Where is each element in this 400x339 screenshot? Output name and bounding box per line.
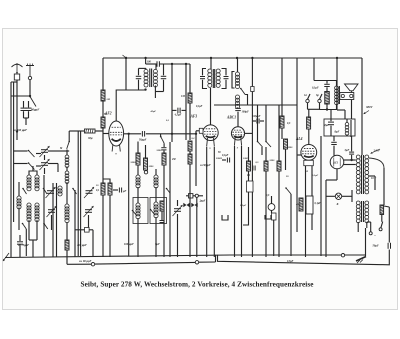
coil L2 [35,175,39,191]
svg-text:M: M [59,147,63,150]
speaker cone [345,84,359,93]
wire row2 right [48,163,58,165]
terminal TA [144,171,147,174]
wire hook 222 [222,215,228,220]
core L18 [338,86,340,104]
svg-text:380V: 380V [365,105,374,109]
coil L17 osc2 [235,95,239,109]
trimmer C6b [86,191,93,194]
coil L7b [66,150,68,156]
switch S8b [43,223,48,229]
wire tr tap curve [369,158,384,168]
speaker magnet [340,93,354,100]
wire r16 [278,105,280,161]
resistor R4 [101,117,105,128]
pilot lamp K [335,193,341,199]
capacitor C19 [253,166,255,171]
wire anode AF2 [116,90,145,121]
svg-text:~: ~ [374,234,376,238]
wire r12r13 [189,151,191,154]
switch S7 [72,188,76,194]
svg-text:n: n [209,147,211,150]
earth plug E [26,64,34,77]
svg-text:n: n [237,147,239,150]
wire elect top [336,58,338,110]
resistor R3 [101,90,105,101]
svg-text:240V: 240V [373,149,381,153]
svg-text:80μμF: 80μμF [31,108,39,112]
tube V1 legs [112,145,120,156]
wire anode feed drop [125,58,127,90]
switch S3 row1 right [62,150,69,152]
terminal G1 [306,99,309,102]
coil L9 T1 secondary [153,69,157,87]
wire t1 top right [159,63,190,65]
svg-text:0,1: 0,1 [166,119,169,122]
switch S6 [43,188,47,194]
wire tr right vert [383,168,385,205]
wire r7 [137,142,139,154]
wire col 170 [169,142,171,257]
label 240V [371,149,381,154]
resistor R22 [380,205,384,215]
svg-text:5000: 5000 [270,159,276,162]
svg-text:4000: 4000 [295,203,302,206]
padder C15a [183,203,189,207]
wire r4 down [102,128,104,183]
wire mains bottom [218,250,390,265]
switch S4 row2 [14,163,28,165]
resistor R5 [101,183,105,195]
svg-text:4,5μF: 4,5μF [174,114,182,117]
node bus dots [236,57,238,59]
svg-text:μF: μF [122,190,126,193]
bracket L16 [232,72,235,89]
svg-text:0,1: 0,1 [96,189,100,192]
wire L14 bottom to AF3 [210,88,212,125]
padder C15b [191,203,197,207]
coil L16 osc [235,72,239,89]
switch S10 [132,210,137,216]
wire r14 top [248,147,250,161]
svg-text:400 μμF: 400 μμF [76,244,87,247]
wire lamp leads [326,195,335,197]
terminal T2b [195,261,198,264]
coil L13 [154,202,158,218]
transformer T2 core [212,69,214,88]
wire L11 down [137,218,139,257]
switch S2 row1 [14,150,28,152]
resistor R10 [160,201,164,211]
wire avc drop b [80,131,82,256]
coil L6 [65,204,69,223]
wire second bottom b [199,261,216,263]
wire osc tap [245,95,247,106]
wire drop 320 [320,136,322,256]
capacitor C18 [235,108,241,110]
coil L1 [27,175,31,191]
switch S8 [22,223,27,229]
trimmer C14 [174,209,181,212]
svg-text:w: w [115,153,117,156]
svg-text:50000: 50000 [131,161,138,164]
wire terms [307,103,309,110]
trimmer C6 [85,210,92,213]
wire col 257 [257,105,259,141]
svg-text:AF2: AF2 [104,112,112,116]
capacitor C12 coupling [124,133,142,135]
resistor R15 [264,161,268,171]
wire r2 to line2 [66,250,68,264]
pot box P1b [272,213,277,220]
capacitor C13 [163,143,165,147]
svg-text:50μF: 50μF [373,245,379,248]
wire col 56 [56,183,58,257]
capacitor C17a left bracket [203,69,207,76]
transformer TR core [361,155,363,194]
arrester box D [14,74,19,80]
switch blade G2 [320,94,323,99]
wire col 172 [171,64,173,112]
core lower [361,201,363,222]
wire af3 side [196,130,199,132]
wire L8 top [145,68,147,69]
box osc trimmer [251,87,254,92]
wire osc drop [237,58,239,72]
box pot2 [247,181,254,192]
resistor R7 [136,153,140,165]
svg-text:100μμF: 100μμF [252,115,261,118]
tube V5 AZ1 [330,155,344,169]
resistor R2 [65,240,69,250]
tube V1 AF2 [109,121,124,146]
wire tr tap mid [369,175,375,177]
bus chassis bottom [5,255,230,258]
terminal G2 [318,99,321,102]
wire L1L2 top [29,171,37,175]
svg-text:50: 50 [96,184,99,187]
node rail dot [16,130,18,132]
wire al4 pins [305,166,307,257]
svg-text:5μF: 5μF [155,243,160,246]
wire input junction [11,95,30,97]
switch blade G1 [308,94,311,99]
wire L12 [155,169,157,175]
wire second bottom riser [215,255,217,262]
wire r5 down [102,195,104,257]
wire magnet down [351,100,353,120]
tube V3 legs [234,138,241,150]
wire row1 to right [48,150,62,152]
capacitor C23 8uF [330,119,332,121]
trimmer C5 [48,210,55,213]
capacitor C16 45uF [172,109,177,111]
svg-text:1000: 1000 [288,146,294,149]
resistor R17 [280,116,284,128]
coil L22 TR lower2 [365,201,369,223]
terminal T1b [91,263,94,266]
svg-text:AZ1: AZ1 [332,161,339,165]
svg-text:0,3: 0,3 [287,122,291,125]
wire al4 grid [297,154,301,156]
wire speaker bottom [320,109,337,111]
svg-text:0,5: 0,5 [256,161,260,164]
wire coil bottoms [28,220,30,240]
trimmer C5b [47,191,54,194]
wire earth down [29,80,31,96]
coil L20 TR secondary [365,155,369,194]
tube V2 legs [207,138,215,150]
switch S5 [22,188,26,194]
svg-text:50: 50 [286,175,289,178]
wire bus left drop [102,58,104,90]
wire AF2 cath drop [128,133,130,135]
coil L3 [17,196,21,209]
wire r3-r4 [102,101,104,117]
svg-text:ca 50μμF: ca 50μμF [200,164,211,167]
tube base AL4 [304,160,314,165]
coil L11 [136,203,140,219]
wire az1 heater bot [344,164,356,166]
svg-text:1000: 1000 [149,165,155,168]
capacitor C11 [155,64,157,69]
wire r15 [265,147,267,161]
wire col 75 [74,190,76,257]
box ant pad [85,228,90,233]
coil L7 [58,186,62,196]
svg-text:30μ: 30μ [87,136,93,140]
wire L10 down [137,187,139,203]
svg-text:0,1μF: 0,1μF [312,87,319,90]
resistor R11 [188,93,192,103]
resistor R14 [247,161,251,171]
wire af3 pins [206,147,208,258]
pot circle P1 [268,204,275,211]
resistor R23 grid [308,109,310,117]
wire col 186 [185,64,187,140]
box terminal TB [189,194,193,198]
svg-text:50μμF: 50μμF [139,139,147,142]
terminal mains b [379,228,382,231]
svg-text:0,1μF: 0,1μF [315,202,322,205]
wire r17 [281,58,283,116]
svg-text:Seibt, Super 278 W, Wechselstr: Seibt, Super 278 W, Wechselstrom, 2 Vork… [81,281,314,289]
grid box AF3 [199,128,203,133]
wire col 53 [52,183,54,257]
arrow chassis left [3,253,9,261]
wire mains up a [370,222,372,232]
switch S15 mains blade [381,222,383,228]
svg-text:2M: 2M [171,158,176,161]
wire caps join [24,117,29,119]
wire az1 heater top [344,159,356,161]
svg-text:AL4: AL4 [295,137,303,141]
wire abc1 pins [234,146,236,257]
resistor R8 [144,158,148,170]
wire l17 down [237,106,239,109]
switch S12 osc [240,88,245,95]
switch S9 [160,134,162,136]
wire tb [193,195,195,197]
wire col 252 [251,58,253,87]
wire avc drop [77,131,79,256]
wire L13 down [155,217,157,257]
switch S13 [257,141,263,147]
resistor R13 [188,154,192,164]
shield box right [150,198,167,224]
switch S11 [150,209,155,215]
wire r1 left down [68,131,70,142]
svg-text:100μF: 100μF [242,111,250,114]
svg-text:0,5μF: 0,5μF [287,260,294,263]
svg-text:50000: 50000 [216,157,223,160]
resistor R9 [162,153,166,165]
wire r6 down [109,195,111,257]
svg-text:n: n [307,170,309,173]
resistor R12 [188,141,192,151]
svg-text:0,1: 0,1 [247,174,251,177]
tube V4 AL4 [301,145,317,161]
capacitor C8 [113,189,118,191]
svg-text:0,1μF: 0,1μF [222,154,229,157]
capacitor C28 [160,221,165,223]
coil L14 T2 primary [208,69,212,87]
wire L9 bottom [154,86,156,99]
svg-text:45μF: 45μF [150,110,157,113]
svg-text:0,1μF: 0,1μF [312,174,319,177]
capacitor C26 50uF [388,243,390,249]
coil L7c [66,166,68,171]
wire r10 down [161,211,163,220]
svg-text:1M: 1M [181,95,185,98]
tube V2 AF3 [203,125,218,141]
wire mains up c [381,215,383,222]
switch S14 [265,141,271,147]
wire r14 down [248,171,250,220]
resistor R19 [299,198,303,211]
svg-text:0,3: 0,3 [266,194,270,197]
resistor R21 field [326,87,328,91]
svg-text:50: 50 [218,151,221,154]
wire c14 [177,200,179,206]
switch S17 [166,188,170,193]
switch S3b [67,141,70,149]
capacitor C2 80uuF [28,101,30,108]
capacitor C9 100uuF [146,63,157,65]
svg-text:ca. 60 μμF: ca. 60 μμF [79,260,92,263]
svg-text:0,2: 0,2 [192,137,196,140]
coil L21 TR lower [356,201,360,223]
capacitor C10 [139,67,147,69]
svg-text:8μF: 8μF [325,124,330,127]
wire drop 351b [350,120,352,137]
wire potbox down [273,220,275,256]
terminal chassis right [341,254,344,257]
wire col 266 [265,105,267,141]
resistor R16 [277,161,281,171]
choke L23 [346,119,348,123]
coil L19 TR primary [356,155,360,194]
svg-text:Gr: Gr [304,94,308,97]
svg-text:ABC1: ABC1 [226,116,236,120]
capacitor C1 80uuF [23,101,25,108]
wire T1 feed stub [145,58,147,64]
coil L4 [27,203,31,222]
wire rail stub [16,82,18,140]
capacitor C21 grid [252,120,256,122]
box R20 [306,196,313,214]
capacitor C17b right bracket [222,69,227,76]
wire r6 top [103,179,110,183]
svg-text:0,5μF: 0,5μF [240,204,247,207]
trimmer C3 [36,153,41,155]
switch S16 [285,187,291,194]
tube V3 ABC1 [231,127,244,140]
terminal TB2 [195,194,198,197]
wire grid AF2 left [103,133,109,135]
wire drop 326 [325,180,327,257]
resistor R1 AVC [69,130,84,132]
svg-text:2M: 2M [106,98,111,101]
wire abc1 right [245,132,253,134]
switch S1 input [29,96,36,107]
wire r9 [163,165,165,257]
wire terms join [308,108,320,110]
wire r8 [145,145,147,158]
antenna A [12,63,23,74]
coil L8 T1 primary [144,69,148,87]
resistor R6 [108,183,112,195]
svg-text:100 μμF: 100 μμF [124,243,134,246]
coil L18 output trafo [336,81,338,87]
capacitor C22 01uF [326,81,328,84]
svg-text:1000: 1000 [243,157,249,160]
wire tr bottom leads [357,222,359,232]
svg-text:0,1μF: 0,1μF [196,105,203,108]
wire col 44 [43,175,45,257]
svg-text:5000: 5000 [157,149,163,152]
transformer T1 core [149,69,151,88]
wire al4 top [308,129,310,145]
capacitor C20 [222,159,226,161]
wire antenna rail left [10,82,12,257]
wire ant pad [75,229,85,231]
svg-text:3μF: 3μF [344,149,350,152]
wire pot leads [271,196,273,204]
coil L12 [154,175,158,188]
wire top bus [103,57,362,59]
svg-text:Sp: Sp [316,94,319,97]
svg-text:100: 100 [147,60,152,64]
wire second bottom [95,262,196,264]
wire T2 drop [210,58,212,69]
svg-text:8μF: 8μF [335,131,340,134]
wire antenna to rails [11,80,17,82]
wire rail 297 [296,58,298,232]
wire speaker branch [313,58,315,81]
node bus arrow [125,57,127,59]
wire bus right corner [361,58,363,155]
wire hook 265 [265,215,271,219]
box electrolytic 2x8uF [324,119,355,136]
svg-text:K: K [336,202,340,206]
svg-text:2μμF: 2μμF [199,200,206,203]
wire horizontals mid [214,104,297,106]
bus chassis bottom right [230,254,366,256]
svg-text:ca 500 μμF: ca 500 μμF [13,128,27,132]
coil L15 T2 secondary [216,69,220,87]
wire r18 down [285,149,287,170]
